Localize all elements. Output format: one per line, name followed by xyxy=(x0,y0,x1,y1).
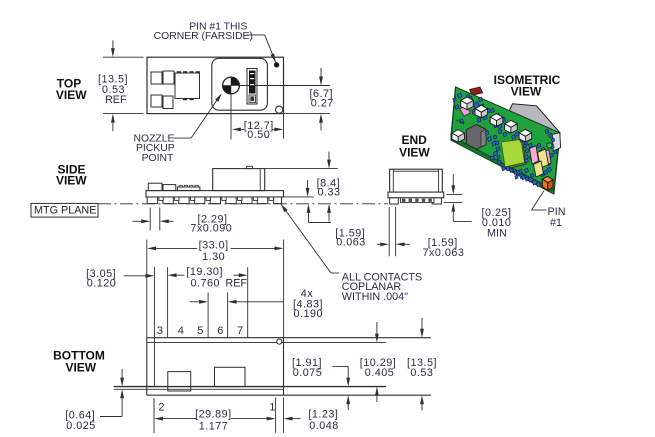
svg-text:4: 4 xyxy=(178,325,185,337)
svg-text:VIEW: VIEW xyxy=(56,174,87,188)
svg-text:0.27: 0.27 xyxy=(311,98,334,110)
svg-text:WITHIN .004": WITHIN .004" xyxy=(342,291,408,303)
svg-text:MTG PLANE: MTG PLANE xyxy=(34,205,96,217)
svg-text:0.53: 0.53 xyxy=(410,367,433,379)
svg-text:[1.23]: [1.23] xyxy=(308,409,338,421)
svg-text:7x0.090: 7x0.090 xyxy=(190,223,232,235)
svg-text:0.075: 0.075 xyxy=(293,367,323,379)
svg-text:7: 7 xyxy=(237,325,244,337)
svg-text:5: 5 xyxy=(197,325,204,337)
svg-text:0.190: 0.190 xyxy=(294,308,324,320)
svg-text:POINT: POINT xyxy=(142,153,174,164)
svg-text:[33.0]: [33.0] xyxy=(199,240,229,252)
svg-text:VIEW: VIEW xyxy=(399,145,430,159)
svg-text:6: 6 xyxy=(217,325,224,337)
svg-text:REF: REF xyxy=(225,277,247,289)
svg-text:0.50: 0.50 xyxy=(247,129,270,141)
svg-text:#1: #1 xyxy=(550,217,562,229)
svg-text:[19.30]: [19.30] xyxy=(186,266,223,278)
svg-text:1.177: 1.177 xyxy=(199,421,229,433)
svg-text:1.30: 1.30 xyxy=(202,251,225,263)
svg-text:3: 3 xyxy=(157,325,164,337)
svg-text:0.405: 0.405 xyxy=(365,367,395,379)
svg-text:CORNER (FARSIDE): CORNER (FARSIDE) xyxy=(154,31,253,42)
svg-text:0.760: 0.760 xyxy=(191,277,221,289)
svg-text:1: 1 xyxy=(269,401,276,413)
svg-text:7x0.063: 7x0.063 xyxy=(422,247,464,259)
svg-text:0.025: 0.025 xyxy=(66,420,96,432)
svg-text:2: 2 xyxy=(158,401,165,413)
svg-text:0.120: 0.120 xyxy=(87,277,117,289)
svg-text:0.048: 0.048 xyxy=(309,420,339,432)
svg-text:0.33: 0.33 xyxy=(317,186,340,198)
svg-text:MIN: MIN xyxy=(487,227,507,239)
svg-text:VIEW: VIEW xyxy=(56,88,87,102)
svg-text:VIEW: VIEW xyxy=(511,85,542,99)
svg-text:VIEW: VIEW xyxy=(65,361,96,375)
svg-text:REF: REF xyxy=(105,94,127,106)
svg-text:[29.89]: [29.89] xyxy=(195,409,232,421)
svg-text:0.063: 0.063 xyxy=(336,237,366,249)
